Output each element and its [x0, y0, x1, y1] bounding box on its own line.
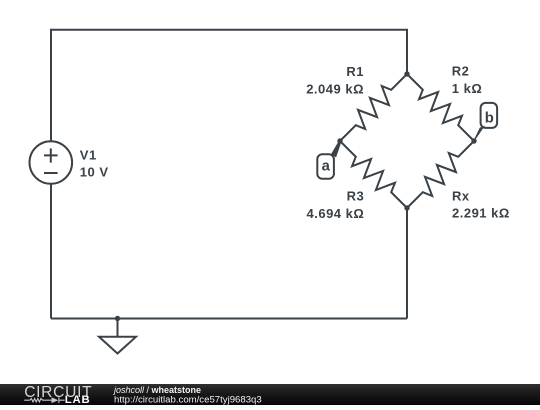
CircuitLab logo resistor-diode glyph	[24, 397, 64, 403]
svg-text:2.291 kΩ: 2.291 kΩ	[452, 206, 510, 221]
svg-text:V1: V1	[80, 147, 97, 162]
svg-text:a: a	[322, 158, 331, 174]
junction dot top node	[404, 71, 409, 76]
node a flag box	[317, 154, 334, 179]
wire left+top from V1 to top node	[51, 30, 407, 141]
svg-text:R3: R3	[347, 189, 365, 204]
svg-text:b: b	[485, 111, 494, 127]
svg-text:1 kΩ: 1 kΩ	[452, 81, 483, 96]
node b flag pointer	[473, 126, 485, 142]
svg-text:R1: R1	[346, 64, 364, 79]
V1 plus sign	[44, 148, 58, 162]
wire right-bottom from bottom node down	[406, 208, 408, 319]
wire bottom	[51, 318, 407, 320]
node b flag box	[481, 103, 498, 128]
V1 minus sign	[44, 172, 58, 174]
svg-text:R2: R2	[452, 64, 470, 79]
svg-text:LAB: LAB	[65, 394, 91, 405]
voltage source V1 circle	[30, 141, 73, 184]
svg-text:Rx: Rx	[452, 188, 470, 203]
junction dot node b	[471, 138, 476, 143]
resistor R2	[407, 74, 474, 141]
ground triangle	[99, 337, 136, 354]
svg-text:10 V: 10 V	[80, 165, 109, 180]
junction dot ground tap	[115, 316, 120, 321]
junction dot node a	[337, 138, 342, 143]
svg-text:2.049 kΩ: 2.049 kΩ	[306, 82, 364, 97]
ground stem	[117, 319, 119, 337]
node a flag pointer	[331, 140, 342, 157]
svg-text:4.694 kΩ: 4.694 kΩ	[307, 206, 365, 221]
wire left-bottom from V1 down	[50, 184, 52, 319]
svg-text:http://circuitlab.com/ce57tyj9: http://circuitlab.com/ce57tyj9683q3	[114, 395, 262, 405]
resistor Rx	[407, 141, 474, 208]
resistor R1	[340, 74, 407, 141]
junction dot bottom node	[404, 205, 409, 210]
resistor R3	[340, 141, 407, 208]
